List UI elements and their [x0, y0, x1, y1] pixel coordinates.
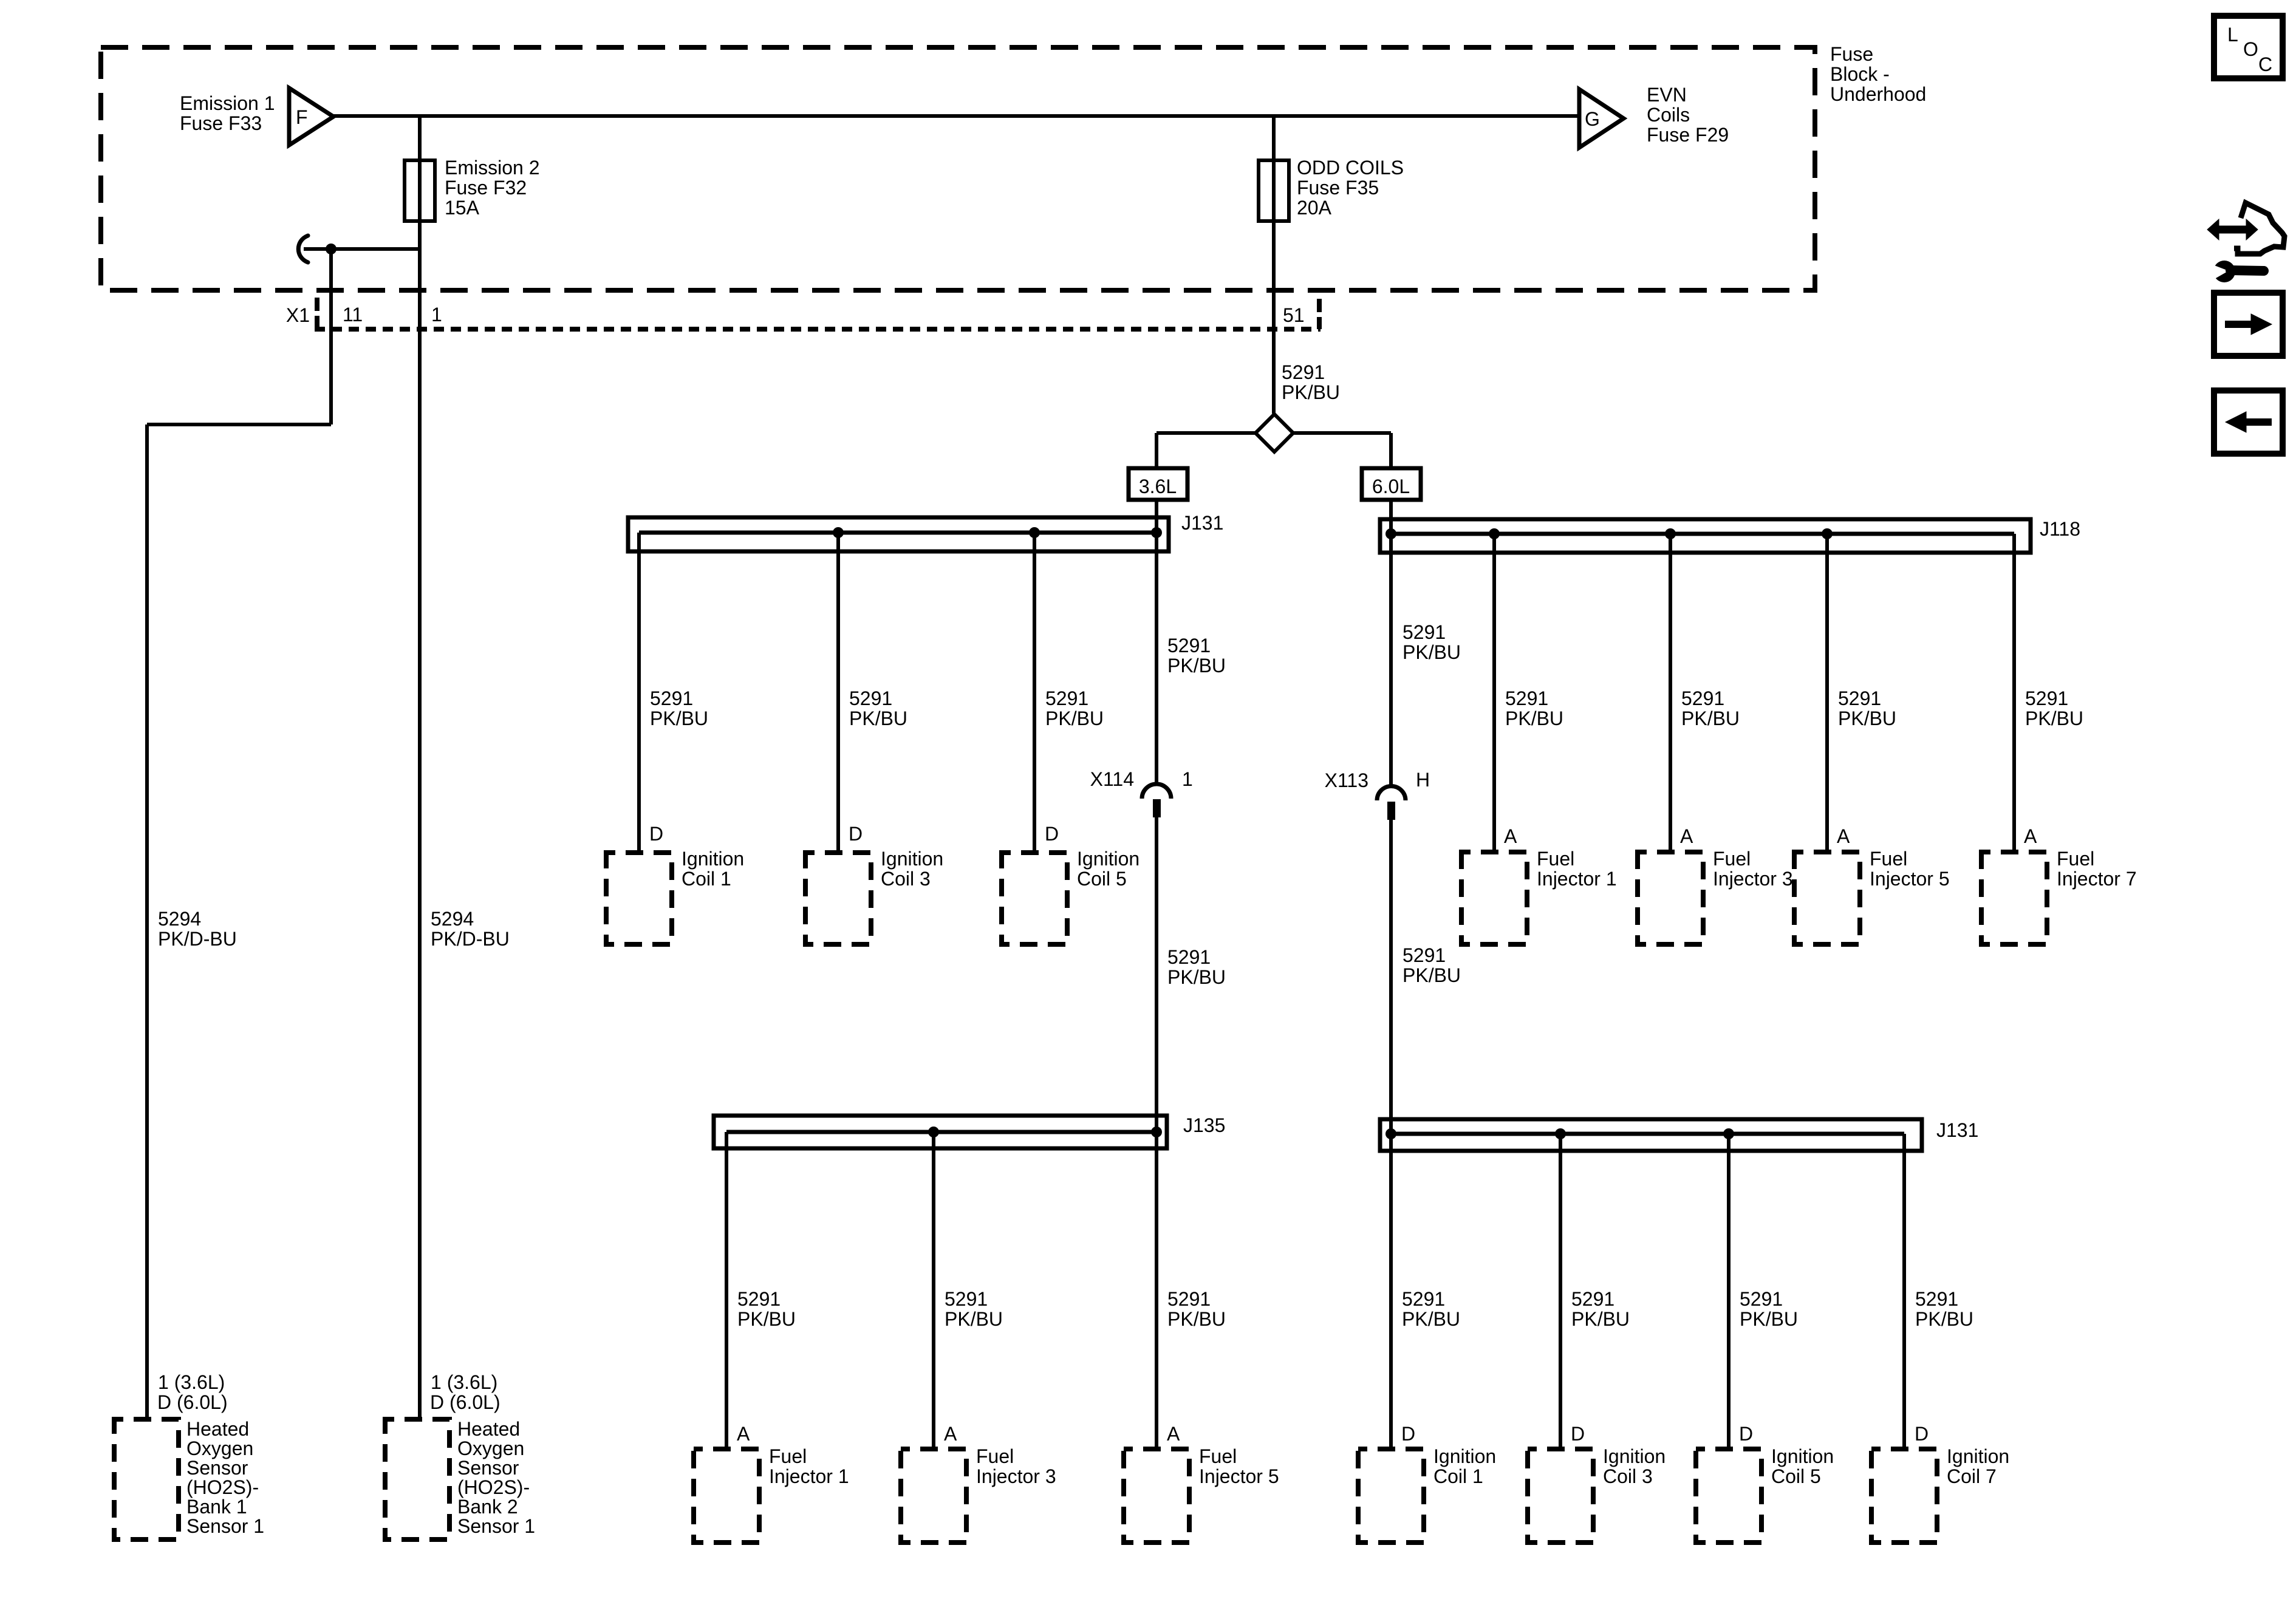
- svg-text:5291: 5291: [1681, 687, 1724, 709]
- svg-text:5291: 5291: [849, 687, 892, 709]
- svg-text:J135: J135: [1183, 1114, 1225, 1136]
- svg-text:Coil 1: Coil 1: [682, 868, 731, 890]
- svg-text:Coil 5: Coil 5: [1077, 868, 1127, 890]
- svg-text:D: D: [1401, 1423, 1415, 1445]
- svg-text:Coil 3: Coil 3: [881, 868, 931, 890]
- svg-text:PK/BU: PK/BU: [737, 1308, 796, 1330]
- svg-text:Injector 1: Injector 1: [769, 1465, 849, 1487]
- svg-text:PK/BU: PK/BU: [1167, 966, 1226, 988]
- svg-text:Fuel: Fuel: [769, 1445, 807, 1467]
- svg-text:5291: 5291: [1403, 944, 1446, 966]
- svg-text:X114: X114: [1090, 768, 1134, 790]
- svg-text:Ignition: Ignition: [682, 848, 744, 870]
- svg-text:Sensor 1: Sensor 1: [186, 1515, 264, 1537]
- svg-text:5291: 5291: [1167, 635, 1211, 656]
- svg-text:PK/BU: PK/BU: [1167, 655, 1226, 677]
- svg-text:5291: 5291: [1505, 687, 1548, 709]
- svg-text:5291: 5291: [1838, 687, 1881, 709]
- svg-text:11: 11: [343, 304, 363, 326]
- svg-text:PK/BU: PK/BU: [650, 707, 708, 729]
- svg-text:Ignition: Ignition: [881, 848, 943, 870]
- svg-text:Fuse F33: Fuse F33: [180, 112, 262, 134]
- svg-text:Sensor: Sensor: [457, 1457, 519, 1479]
- svg-text:Fuel: Fuel: [1199, 1445, 1237, 1467]
- svg-text:Fuse F29: Fuse F29: [1647, 124, 1729, 146]
- svg-text:D: D: [1739, 1423, 1753, 1445]
- svg-text:Coil 7: Coil 7: [1947, 1465, 1997, 1487]
- svg-text:J131: J131: [1936, 1119, 1978, 1141]
- svg-text:Block -: Block -: [1830, 63, 1890, 85]
- svg-text:PK/BU: PK/BU: [1282, 381, 1340, 403]
- svg-text:1 (3.6L): 1 (3.6L): [158, 1371, 225, 1393]
- svg-text:5291: 5291: [1915, 1288, 1958, 1310]
- svg-text:Ignition: Ignition: [1077, 848, 1139, 870]
- svg-text:PK/D-BU: PK/D-BU: [431, 928, 510, 950]
- svg-text:PK/BU: PK/BU: [1838, 707, 1896, 729]
- svg-text:PK/BU: PK/BU: [1167, 1308, 1226, 1330]
- svg-text:5291: 5291: [650, 687, 693, 709]
- svg-text:D: D: [1915, 1423, 1929, 1445]
- svg-text:L: L: [2227, 24, 2238, 46]
- svg-text:Emission 2: Emission 2: [445, 157, 540, 179]
- svg-text:PK/BU: PK/BU: [1402, 1308, 1460, 1330]
- svg-text:1: 1: [1182, 768, 1193, 790]
- svg-text:5291: 5291: [945, 1288, 988, 1310]
- svg-text:Injector 3: Injector 3: [976, 1465, 1056, 1487]
- svg-text:D: D: [1571, 1423, 1585, 1445]
- svg-text:5291: 5291: [1282, 361, 1325, 383]
- svg-text:6.0L: 6.0L: [1372, 476, 1410, 497]
- svg-text:PK/BU: PK/BU: [2025, 707, 2083, 729]
- svg-text:3.6L: 3.6L: [1139, 476, 1177, 497]
- svg-text:5291: 5291: [2025, 687, 2068, 709]
- svg-text:15A: 15A: [445, 197, 480, 219]
- svg-text:Ignition: Ignition: [1433, 1445, 1496, 1467]
- svg-text:(HO2S)-: (HO2S)-: [457, 1476, 530, 1498]
- svg-text:D: D: [649, 823, 663, 845]
- svg-text:PK/BU: PK/BU: [1740, 1308, 1798, 1330]
- svg-text:51: 51: [1283, 304, 1305, 326]
- svg-text:A: A: [1837, 825, 1850, 847]
- svg-text:5291: 5291: [1571, 1288, 1614, 1310]
- svg-text:1 (3.6L): 1 (3.6L): [431, 1371, 497, 1393]
- svg-text:Ignition: Ignition: [1771, 1445, 1834, 1467]
- svg-text:Fuse: Fuse: [1830, 43, 1873, 65]
- svg-text:Heated: Heated: [186, 1418, 249, 1440]
- svg-text:Coil 5: Coil 5: [1771, 1465, 1821, 1487]
- svg-text:Fuel: Fuel: [2057, 848, 2094, 870]
- svg-text:Bank 2: Bank 2: [457, 1496, 518, 1518]
- svg-text:O: O: [2243, 38, 2258, 60]
- svg-text:ODD COILS: ODD COILS: [1297, 157, 1404, 179]
- svg-text:Sensor 1: Sensor 1: [457, 1515, 535, 1537]
- svg-text:Ignition: Ignition: [1947, 1445, 2009, 1467]
- svg-text:PK/BU: PK/BU: [1505, 707, 1563, 729]
- svg-text:PK/BU: PK/BU: [945, 1308, 1003, 1330]
- svg-text:PK/BU: PK/BU: [1403, 641, 1461, 663]
- svg-text:A: A: [1680, 825, 1693, 847]
- svg-text:D (6.0L): D (6.0L): [157, 1391, 228, 1413]
- svg-text:A: A: [737, 1423, 750, 1445]
- svg-text:Heated: Heated: [457, 1418, 520, 1440]
- svg-text:Coil 1: Coil 1: [1433, 1465, 1483, 1487]
- svg-text:20A: 20A: [1297, 197, 1332, 219]
- svg-text:5294: 5294: [431, 908, 474, 930]
- svg-text:Fuse F32: Fuse F32: [445, 177, 527, 199]
- svg-text:A: A: [2024, 825, 2037, 847]
- svg-text:D (6.0L): D (6.0L): [430, 1391, 501, 1413]
- svg-text:PK/BU: PK/BU: [849, 707, 907, 729]
- svg-text:Injector 1: Injector 1: [1537, 868, 1617, 890]
- svg-text:Fuse F35: Fuse F35: [1297, 177, 1379, 199]
- svg-text:Injector 3: Injector 3: [1713, 868, 1793, 890]
- svg-text:Ignition: Ignition: [1603, 1445, 1666, 1467]
- svg-text:PK/BU: PK/BU: [1403, 964, 1461, 986]
- svg-text:1: 1: [431, 304, 442, 326]
- svg-text:Fuel: Fuel: [1537, 848, 1574, 870]
- svg-text:Oxygen: Oxygen: [186, 1437, 253, 1459]
- svg-text:X113: X113: [1325, 769, 1368, 791]
- svg-text:Emission 1: Emission 1: [180, 92, 275, 114]
- svg-text:J131: J131: [1181, 512, 1223, 534]
- svg-text:Injector 5: Injector 5: [1199, 1465, 1279, 1487]
- svg-text:Fuel: Fuel: [976, 1445, 1014, 1467]
- svg-text:Fuel: Fuel: [1870, 848, 1907, 870]
- svg-text:5291: 5291: [737, 1288, 781, 1310]
- svg-text:Underhood: Underhood: [1830, 83, 1926, 105]
- svg-text:J118: J118: [2040, 518, 2080, 540]
- svg-text:D: D: [849, 823, 863, 845]
- svg-text:EVN: EVN: [1647, 84, 1687, 106]
- svg-text:PK/BU: PK/BU: [1681, 707, 1740, 729]
- svg-text:PK/D-BU: PK/D-BU: [158, 928, 237, 950]
- svg-text:X1: X1: [286, 304, 310, 326]
- svg-text:5291: 5291: [1403, 621, 1446, 643]
- svg-text:PK/BU: PK/BU: [1571, 1308, 1630, 1330]
- svg-text:5291: 5291: [1045, 687, 1088, 709]
- svg-text:F: F: [296, 106, 308, 128]
- svg-text:Coils: Coils: [1647, 104, 1690, 126]
- svg-text:C: C: [2258, 53, 2272, 75]
- svg-text:A: A: [1167, 1423, 1180, 1445]
- svg-text:H: H: [1416, 769, 1430, 791]
- svg-text:5291: 5291: [1402, 1288, 1445, 1310]
- svg-text:Injector 7: Injector 7: [2057, 868, 2137, 890]
- svg-text:(HO2S)-: (HO2S)-: [186, 1476, 259, 1498]
- svg-text:PK/BU: PK/BU: [1915, 1308, 1973, 1330]
- svg-text:G: G: [1585, 108, 1600, 130]
- svg-text:5291: 5291: [1167, 946, 1211, 968]
- svg-text:Bank 1: Bank 1: [186, 1496, 247, 1518]
- svg-text:A: A: [1504, 825, 1517, 847]
- svg-text:PK/BU: PK/BU: [1045, 707, 1104, 729]
- svg-text:Oxygen: Oxygen: [457, 1437, 524, 1459]
- svg-text:Coil 3: Coil 3: [1603, 1465, 1653, 1487]
- svg-text:A: A: [944, 1423, 957, 1445]
- svg-text:5291: 5291: [1740, 1288, 1783, 1310]
- svg-text:5291: 5291: [1167, 1288, 1211, 1310]
- svg-text:D: D: [1045, 823, 1059, 845]
- svg-text:Injector 5: Injector 5: [1870, 868, 1950, 890]
- svg-text:Fuel: Fuel: [1713, 848, 1751, 870]
- svg-text:5294: 5294: [158, 908, 201, 930]
- svg-text:Sensor: Sensor: [186, 1457, 248, 1479]
